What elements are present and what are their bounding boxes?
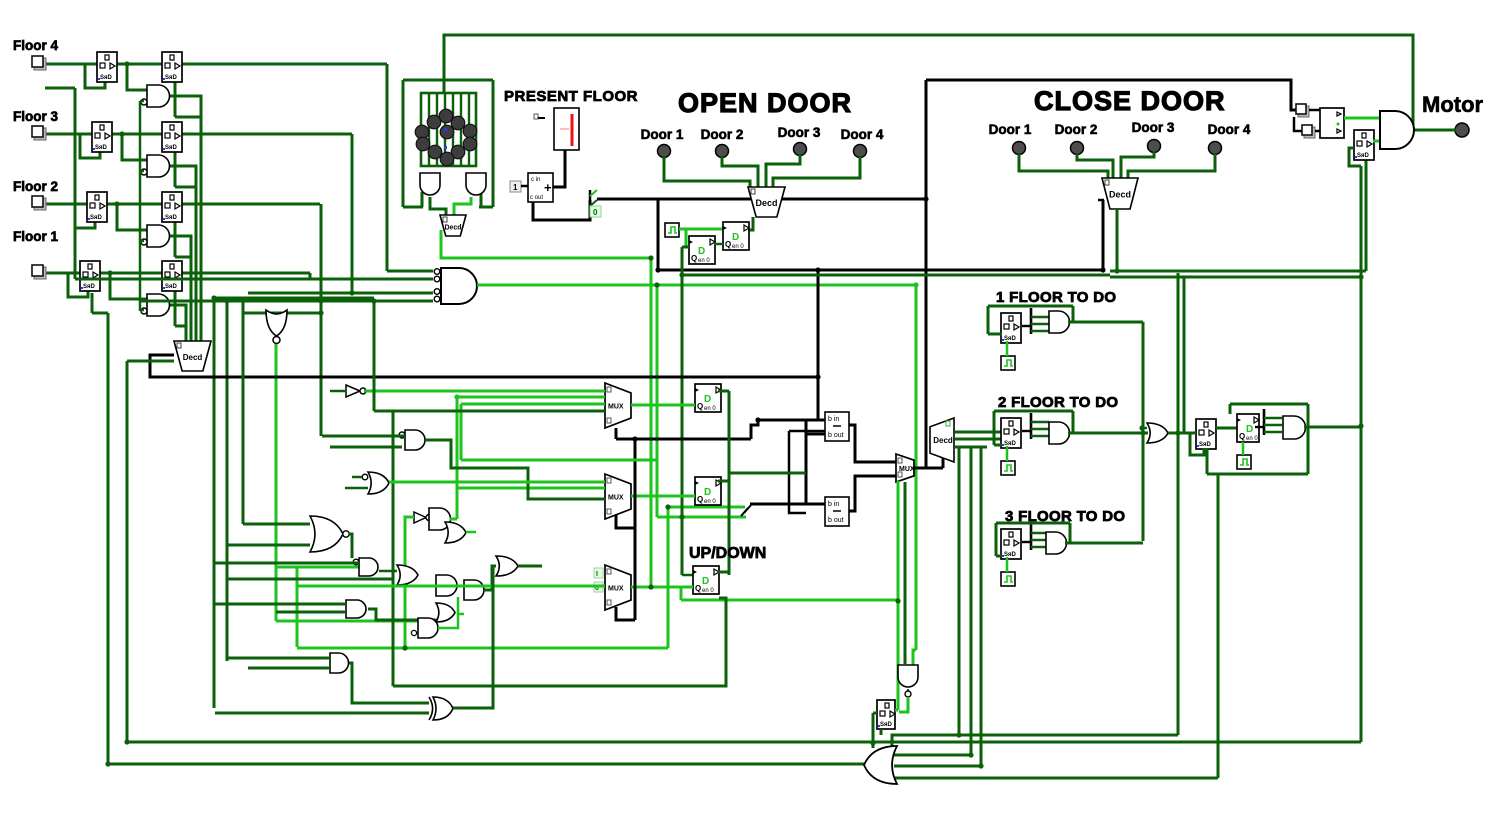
svg-text:en 0: en 0 [1246,436,1258,442]
svg-text:SᴙD: SᴙD [165,284,178,290]
svg-text:CLOSE DOOR: CLOSE DOOR [1034,86,1226,116]
svg-text:Door 1: Door 1 [641,127,684,142]
svg-text:SᴙD: SᴙD [880,722,893,728]
svg-text:SᴙD: SᴙD [83,284,96,290]
svg-text:D: D [1246,424,1253,435]
svg-text:en 0: en 0 [704,406,716,412]
svg-text:UP/DOWN: UP/DOWN [689,545,766,562]
svg-text:D: D [732,232,739,243]
svg-text:+: + [544,180,552,195]
svg-text:b out: b out [828,517,844,524]
svg-text:c in: c in [531,177,540,183]
svg-text:Door 1: Door 1 [989,122,1032,137]
svg-text:en 0: en 0 [704,499,716,505]
svg-text:SᴙD: SᴙD [1357,153,1370,159]
svg-text:Floor 3: Floor 3 [13,109,58,124]
svg-text:MUX: MUX [608,586,624,593]
svg-text:SᴙD: SᴙD [165,215,178,221]
svg-text:Door 4: Door 4 [1208,122,1251,137]
svg-text:SᴙD: SᴙD [1199,442,1212,448]
svg-text:Decd: Decd [755,198,777,208]
svg-text:1 FLOOR TO DO: 1 FLOOR TO DO [996,289,1116,306]
svg-text:SᴙD: SᴙD [90,215,103,221]
svg-text:Decd: Decd [933,436,953,445]
svg-text:Q: Q [725,240,731,249]
svg-text:Floor 2: Floor 2 [13,179,58,194]
svg-text:en 0: en 0 [732,244,744,250]
svg-text:Q: Q [697,402,703,411]
svg-text:D: D [702,576,709,587]
svg-text:PRESENT FLOOR: PRESENT FLOOR [504,88,638,105]
svg-text:SᴙD: SᴙD [100,75,113,81]
svg-text:Decd: Decd [444,225,461,232]
svg-text:Q: Q [1239,432,1245,441]
svg-text:Q: Q [691,254,697,263]
svg-text:Motor: Motor [1422,92,1484,117]
svg-text:Door 2: Door 2 [1055,122,1098,137]
svg-text:Decd: Decd [183,353,203,362]
svg-text:Door 3: Door 3 [778,125,821,140]
svg-text:Decd: Decd [1109,190,1131,200]
svg-text:SᴙD: SᴙD [165,145,178,151]
svg-text:c out: c out [530,195,543,201]
svg-text:Floor 4: Floor 4 [13,38,58,53]
svg-text:Door 2: Door 2 [701,127,744,142]
svg-text:1: 1 [513,183,518,192]
svg-text:Door 4: Door 4 [841,127,884,142]
svg-text:SᴙD: SᴙD [165,75,178,81]
svg-text:I: I [596,571,598,578]
svg-text:b in: b in [828,501,839,508]
svg-text:Q: Q [697,495,703,504]
svg-text:D: D [704,487,711,498]
svg-text:b in: b in [828,416,839,423]
svg-text:MUX: MUX [608,404,624,411]
svg-text:SᴙD: SᴙD [95,145,108,151]
svg-text:en 0: en 0 [702,588,714,594]
svg-text:Door 3: Door 3 [1132,120,1175,135]
svg-text:D: D [698,246,705,257]
svg-text:OPEN DOOR: OPEN DOOR [678,88,852,118]
svg-text:Floor 1: Floor 1 [13,229,58,244]
svg-text:2 FLOOR TO DO: 2 FLOOR TO DO [998,394,1118,411]
svg-text:en 0: en 0 [698,258,710,264]
svg-text:Q: Q [695,584,701,593]
svg-text:D: D [704,394,711,405]
svg-text:MUX: MUX [608,495,624,502]
svg-text:b out: b out [828,432,844,439]
svg-text:0: 0 [593,208,598,217]
